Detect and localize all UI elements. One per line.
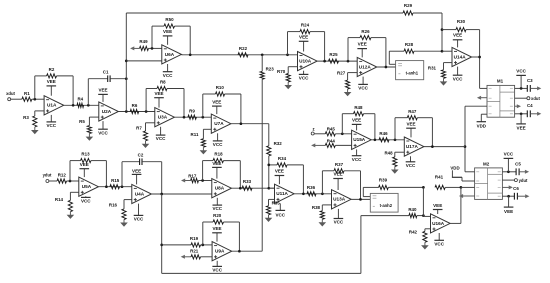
svg-text:VEE: VEE [154, 91, 163, 96]
svg-text:R24: R24 [301, 23, 310, 28]
svg-text:R40: R40 [408, 207, 417, 212]
power VCC U10A [303, 71, 305, 75]
wire U16A output [450, 222, 461, 224]
svg-text:VCC: VCC [134, 216, 144, 221]
svg-text:R45: R45 [327, 126, 336, 131]
resistor R11 [203, 128, 211, 130]
capacitor C1 [87, 79, 89, 106]
svg-text:R18: R18 [214, 152, 223, 157]
svg-text:R13: R13 [81, 151, 90, 156]
power VEE U9A [216, 233, 218, 242]
svg-text:M1: M1 [497, 79, 504, 84]
svg-text:VCC: VCC [212, 267, 222, 272]
svg-text:R4: R4 [77, 97, 83, 102]
op-amp U13A [332, 190, 352, 209]
wire top bus [126, 12, 403, 14]
svg-text:ydut: ydut [519, 178, 528, 183]
op-amp U10A [298, 52, 318, 71]
resistor R26 [347, 38, 349, 62]
svg-text:R48: R48 [384, 150, 393, 155]
svg-text:VEE: VEE [47, 79, 56, 84]
power VEE U17A [410, 128, 412, 137]
wire U3A output [174, 116, 211, 118]
svg-text:VCC: VCC [434, 241, 444, 246]
ground [443, 78, 445, 82]
resistor R39 [363, 186, 378, 188]
svg-text:VEE: VEE [163, 29, 172, 34]
svg-text:VCC: VCC [504, 151, 514, 156]
power VEE U8A [216, 167, 218, 178]
svg-text:U1A: U1A [47, 103, 57, 108]
wire U8A output [231, 187, 274, 189]
svg-text:VEE: VEE [352, 118, 361, 123]
resistor R37 [321, 171, 323, 194]
power VCC M2 [507, 158, 509, 171]
node off-page arrow right [530, 87, 538, 89]
op-amp U4A [132, 184, 152, 203]
svg-text:U3A: U3A [158, 115, 168, 120]
resistor R7 [146, 122, 155, 124]
svg-text:VEE: VEE [212, 226, 221, 231]
wire U11A minus [269, 187, 275, 189]
svg-text:VEE: VEE [212, 99, 221, 104]
op-amp U2A [99, 102, 119, 121]
svg-text:R23: R23 [266, 66, 275, 71]
ground [123, 220, 125, 224]
resistor R48 [341, 114, 343, 134]
resistor R29 [403, 11, 413, 15]
svg-text:R25: R25 [329, 52, 338, 57]
svg-text:R15: R15 [111, 178, 120, 183]
svg-text:VCC: VCC [275, 213, 285, 218]
node off-page arrow M1 pin2 [480, 97, 487, 99]
node z input terminal [311, 132, 314, 135]
power VCC U3A [160, 127, 162, 135]
power VCC U13A [337, 209, 339, 219]
svg-text:U11A: U11A [276, 191, 288, 196]
wire M1 right pin1 [515, 87, 528, 89]
resistor R6 [130, 109, 139, 113]
ground [34, 127, 36, 131]
resistor R46 [379, 138, 389, 142]
svg-text:U2A: U2A [102, 109, 112, 114]
block tanh1 [388, 51, 390, 64]
svg-text:U13A: U13A [333, 197, 346, 202]
power VEE U3A [158, 98, 160, 108]
power VCC U8A [216, 198, 218, 205]
svg-text:R27: R27 [337, 70, 346, 75]
resistor R70 [288, 66, 297, 68]
svg-text:VEE: VEE [80, 162, 89, 167]
svg-text:R20: R20 [213, 213, 222, 218]
power VCC U14A [457, 67, 459, 76]
svg-text:U5A: U5A [82, 184, 92, 189]
svg-text:VEE: VEE [517, 126, 526, 131]
svg-text:C2: C2 [138, 153, 144, 158]
svg-text:R14: R14 [55, 197, 64, 202]
svg-text:U4A: U4A [135, 191, 145, 196]
svg-text:R9: R9 [189, 109, 195, 114]
svg-text:R12: R12 [58, 173, 67, 178]
power VCC U7A [217, 133, 219, 141]
node off-page arrow right [519, 171, 526, 173]
svg-text:VCC: VCC [358, 86, 368, 91]
svg-text:VCC: VCC [299, 76, 309, 81]
ground [69, 212, 71, 216]
svg-text:t-anh2: t-anh2 [380, 203, 393, 208]
op-amp U17A [404, 137, 424, 156]
resistor R52 [395, 151, 405, 153]
resistor R34 [269, 164, 277, 166]
power VEE U15A [356, 124, 358, 130]
wire [314, 133, 325, 135]
ground [424, 242, 426, 246]
node off-page arrow M1 pin3 right [515, 105, 518, 107]
capacitor C6 [513, 193, 515, 200]
svg-text:R2: R2 [49, 67, 55, 72]
wire M2 right pin4 [502, 195, 514, 197]
wire U16A minus [422, 187, 424, 216]
power VCC U1A [50, 115, 52, 122]
power VEE M2 [508, 196, 510, 207]
svg-text:R1: R1 [24, 91, 30, 96]
svg-text:VEE: VEE [299, 34, 308, 39]
svg-text:VDD: VDD [450, 165, 459, 170]
svg-text:VCC: VCC [46, 123, 56, 128]
svg-text:VDD: VDD [477, 124, 486, 129]
svg-text:R3: R3 [23, 115, 29, 120]
op-amp U6A [162, 45, 182, 64]
svg-text:R36: R36 [307, 185, 316, 190]
svg-text:z: z [313, 126, 315, 131]
svg-text:R47: R47 [408, 109, 417, 114]
svg-text:R26: R26 [361, 29, 370, 34]
resistor R49 [140, 46, 149, 50]
svg-text:R33: R33 [243, 179, 252, 184]
resistor R50 [151, 26, 153, 48]
wire U14A output [472, 56, 480, 58]
power VEE U11A [278, 176, 280, 185]
node off-page arrow [133, 47, 139, 49]
resistor R18 [202, 161, 204, 181]
wire U9A output [232, 250, 263, 252]
op-amp U5A [79, 177, 99, 196]
svg-text:U15A: U15A [353, 137, 366, 142]
power VEE U13A [337, 179, 339, 191]
power VCC U9A [216, 261, 218, 267]
power VEE U1A [50, 86, 52, 96]
svg-text:C1: C1 [103, 69, 109, 74]
resistor R23 [261, 55, 263, 72]
svg-text:R46: R46 [379, 131, 388, 136]
resistor R24 [287, 32, 289, 55]
resistor R17 [191, 178, 199, 182]
wire U6A plus input [126, 60, 162, 62]
svg-text:VEE: VEE [433, 203, 442, 208]
svg-text:VCC: VCC [352, 157, 362, 162]
wire M2 right pin2 ydut [502, 179, 514, 181]
node off-page arrow right [530, 113, 538, 115]
svg-text:R11: R11 [191, 132, 199, 137]
wire U11A output [294, 193, 331, 195]
resistor R5 [89, 116, 98, 118]
svg-text:xdut: xdut [531, 96, 540, 101]
svg-text:U17A: U17A [406, 144, 419, 149]
svg-text:R48: R48 [354, 105, 363, 110]
ground [347, 89, 349, 93]
wire M1 pin3 [465, 105, 487, 107]
svg-text:R35: R35 [272, 201, 281, 206]
wire U12A output [377, 66, 396, 68]
svg-text:R30: R30 [457, 19, 466, 24]
node ydut input terminal [46, 180, 49, 183]
power VEE U4A [136, 174, 138, 184]
svg-text:R50: R50 [165, 17, 174, 22]
resistor R3 [35, 110, 44, 112]
svg-text:VCC: VCC [81, 198, 91, 203]
op-amp U3A [155, 108, 175, 127]
wire U2A output [118, 111, 154, 113]
power VEE U14A [457, 40, 459, 48]
svg-text:VEE: VEE [132, 169, 141, 174]
power VCC U17A [410, 156, 412, 162]
power VEE M1 [520, 114, 522, 124]
wire M2 pin1 [465, 171, 475, 173]
svg-text:ydut: ydut [43, 173, 52, 178]
node off-page arrow [184, 256, 191, 258]
node off-page arrow right [517, 195, 526, 197]
resistor R38 [322, 204, 331, 206]
resistor R31 [444, 62, 453, 64]
resistor R2 [34, 76, 36, 99]
power VCC U6A [167, 64, 169, 72]
power VEE U7A [216, 106, 218, 114]
wire [32, 98, 44, 100]
resistor R28 [389, 50, 404, 52]
op-amp U1A [44, 96, 64, 115]
svg-text:VCC: VCC [156, 136, 166, 141]
resistor R9 [188, 115, 197, 119]
capacitor C5 [515, 168, 517, 175]
svg-text:R10: R10 [216, 85, 225, 90]
svg-text:xdut: xdut [6, 91, 15, 96]
wire U15A output [371, 139, 404, 141]
svg-text:VEE: VEE [98, 88, 107, 93]
svg-text:VCC: VCC [212, 206, 222, 211]
svg-text:R19: R19 [190, 236, 199, 241]
power VEE U2A [102, 94, 104, 102]
resistor R33 [242, 186, 252, 190]
svg-text:VEE: VEE [275, 169, 284, 174]
ground [394, 167, 396, 171]
svg-text:U12A: U12A [359, 64, 372, 69]
svg-text:R70: R70 [277, 69, 286, 74]
power VCC U4A [138, 204, 140, 216]
wire M1 right pin4 [515, 113, 528, 115]
resistor R27 [348, 72, 358, 74]
svg-text:R41: R41 [435, 175, 444, 180]
svg-text:VEE: VEE [504, 209, 513, 214]
wire U4A output to bottom bus [161, 194, 163, 273]
ground [145, 141, 147, 145]
resistor R36 [307, 192, 316, 196]
wire U6A output [181, 54, 297, 56]
resistor R20 [202, 222, 204, 245]
resistor R15 [110, 185, 120, 189]
svg-text:R37: R37 [335, 162, 344, 167]
svg-text:VEE: VEE [358, 41, 367, 46]
node off-page arrow M2 pin3 right [502, 186, 510, 188]
ground [268, 215, 270, 219]
svg-text:VCC: VCC [406, 163, 416, 168]
block tanh2 [362, 187, 364, 196]
wire M1 right pin2 xdut [515, 97, 527, 99]
svg-text:VCC: VCC [98, 131, 108, 136]
capacitor C3 [526, 85, 528, 92]
svg-text:R31: R31 [428, 66, 437, 71]
resistor R1 [22, 97, 32, 101]
svg-text:R39: R39 [379, 177, 388, 182]
resistor R19 [162, 244, 191, 246]
resistor R35 [269, 198, 275, 200]
svg-text:U14A: U14A [454, 54, 467, 59]
resistor R4 [77, 103, 84, 107]
wire [49, 180, 57, 182]
resistor R14 [70, 191, 78, 193]
svg-text:VEE: VEE [406, 121, 415, 126]
op-amp U11A [275, 184, 295, 203]
power VCC U11A [279, 203, 281, 210]
ground [88, 134, 90, 138]
svg-text:R32: R32 [274, 141, 283, 146]
svg-text:U6A: U6A [165, 52, 175, 57]
power VCC U2A [102, 121, 104, 129]
svg-text:VCC: VCC [163, 73, 173, 78]
resistor R25 [329, 59, 339, 63]
svg-text:VCC: VCC [213, 142, 223, 147]
resistor R21 [191, 255, 201, 259]
node U14A minus junction [441, 50, 444, 53]
svg-text:M2: M2 [483, 161, 490, 166]
resistor R13 [69, 161, 71, 181]
power VCC U16A [438, 233, 440, 240]
wire U17A output [424, 146, 465, 148]
power VEE U12A [361, 49, 363, 58]
op-amp U7A [211, 114, 231, 133]
power VEE U5A [83, 169, 85, 177]
capacitor C2 [121, 162, 123, 187]
svg-text:R49: R49 [139, 39, 148, 44]
svg-text:R29: R29 [404, 3, 413, 8]
node off-page arrow [184, 180, 191, 182]
svg-text:R44: R44 [327, 138, 336, 143]
svg-text:R34: R34 [278, 156, 287, 161]
svg-text:VCC: VCC [334, 220, 344, 225]
svg-text:VCC: VCC [516, 68, 526, 73]
resistor R40 [361, 215, 409, 217]
wire U1A output [64, 104, 99, 106]
power VEE U16A [437, 210, 439, 215]
svg-text:U10A: U10A [299, 59, 312, 64]
svg-text:R22: R22 [239, 46, 248, 51]
wire U4A output [151, 193, 211, 195]
svg-text:R28: R28 [405, 42, 414, 47]
wire [11, 98, 22, 100]
node off-page arrow [314, 144, 325, 146]
svg-text:U7A: U7A [214, 121, 224, 126]
resistor R41 [435, 185, 445, 189]
power VCC U12A [362, 77, 364, 85]
resistor R30 [441, 28, 444, 31]
svg-text:VEE: VEE [212, 161, 221, 166]
svg-text:R17: R17 [188, 173, 197, 178]
resistor R16 [124, 199, 132, 201]
svg-text:t-anh1: t-anh1 [406, 71, 419, 76]
svg-text:VEE: VEE [334, 172, 343, 177]
power VCC U15A [356, 149, 358, 155]
wire M2 right pin1 [502, 171, 516, 173]
capacitor C4 [526, 110, 528, 117]
op-amp U15A [352, 130, 372, 149]
svg-text:U9A: U9A [215, 249, 225, 254]
wire M1 pin1 [480, 87, 487, 89]
wire U7A output [231, 123, 269, 125]
op-amp U12A [357, 57, 377, 76]
power VEE U10A [303, 41, 305, 51]
wire U13A output [351, 198, 370, 200]
ground [321, 219, 323, 223]
svg-text:C3: C3 [527, 78, 533, 83]
power VCC M1 [520, 75, 522, 88]
wire U5A output [98, 186, 131, 188]
node off-page arrow M2 pin4 [462, 195, 475, 197]
svg-text:R21: R21 [190, 249, 199, 254]
svg-text:R6: R6 [132, 103, 138, 108]
resistor R10 [202, 94, 204, 117]
resistor R8 [145, 89, 147, 112]
power VCC U5A [85, 196, 87, 197]
svg-text:C6: C6 [513, 186, 519, 191]
power VDD M1 pin4 [481, 113, 487, 115]
svg-text:U8A: U8A [215, 186, 225, 191]
ground [287, 82, 289, 86]
op-amp U8A [212, 179, 232, 198]
svg-text:R7: R7 [136, 126, 142, 131]
resistor R32 [268, 124, 270, 146]
op-amp U9A [212, 242, 232, 261]
svg-text:C4: C4 [527, 103, 533, 108]
svg-text:VCC: VCC [453, 76, 463, 81]
resistor R44 [325, 143, 335, 147]
op-amp U16A [431, 214, 451, 233]
svg-text:VEE: VEE [453, 32, 462, 37]
svg-text:R8: R8 [160, 80, 166, 85]
svg-text:R42: R42 [409, 229, 418, 234]
svg-text:U16A: U16A [432, 221, 445, 226]
resistor R47 [394, 118, 396, 140]
svg-text:R38: R38 [312, 205, 321, 210]
resistor R42 [425, 228, 431, 230]
resistor R22 [238, 53, 248, 57]
svg-text:R16: R16 [109, 203, 118, 208]
wire U10A output [317, 60, 357, 62]
ground [202, 147, 204, 151]
svg-text:R5: R5 [79, 119, 85, 124]
svg-text:C5: C5 [515, 161, 521, 166]
op-amp U14A [452, 47, 472, 66]
resistor R12 [57, 179, 67, 183]
power VEE U6A [167, 36, 169, 45]
